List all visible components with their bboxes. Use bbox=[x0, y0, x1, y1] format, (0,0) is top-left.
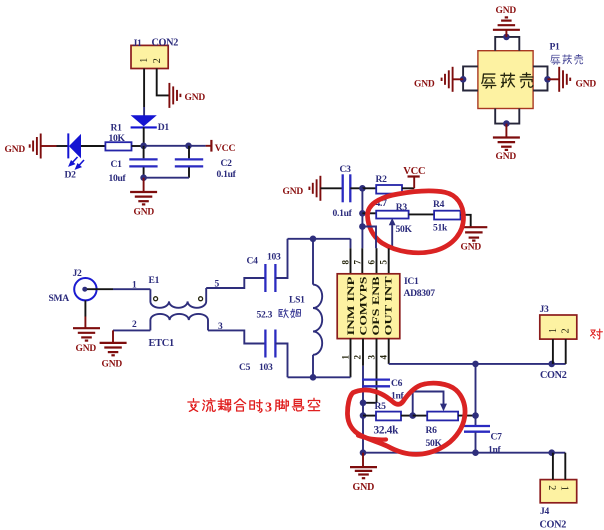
svg-text:1: 1 bbox=[341, 355, 351, 360]
svg-text:LS1: LS1 bbox=[289, 295, 305, 306]
svg-text:C3: C3 bbox=[340, 164, 352, 175]
svg-text:7: 7 bbox=[352, 260, 362, 265]
node R5 left bbox=[360, 412, 367, 419]
wire gnd to C3 bbox=[320, 187, 342, 189]
wire top rail to pin8 bbox=[288, 238, 351, 240]
node at D1/R1/C1 bbox=[140, 143, 147, 150]
connector J3 bbox=[540, 304, 577, 381]
svg-text:INM INP: INM INP bbox=[347, 276, 357, 335]
node C7 bottom bbox=[472, 449, 479, 456]
ground (P1 left, sideways) bbox=[414, 67, 463, 92]
svg-text:GND: GND bbox=[461, 242, 482, 252]
ground (below C1, earth) bbox=[130, 178, 157, 218]
resistor R6 bbox=[413, 412, 476, 449]
wiper of R3 (arrow up to pin5) bbox=[389, 218, 396, 248]
node J4 pin bbox=[548, 449, 555, 456]
svg-text:50K: 50K bbox=[396, 224, 413, 235]
svg-text:J4: J4 bbox=[540, 506, 549, 517]
svg-text:2: 2 bbox=[353, 355, 363, 360]
svg-text:2: 2 bbox=[132, 320, 137, 330]
node R6 right on C7 line bbox=[472, 412, 479, 419]
capacitor C5 bbox=[239, 330, 275, 374]
resistor R2 bbox=[362, 174, 414, 209]
node R5/R6 wiper tap bbox=[409, 412, 416, 419]
wire J1 pin1 down bbox=[143, 69, 145, 108]
wire pin3 jog to pin2 line bbox=[363, 402, 377, 404]
ground (bottom rail, earth) bbox=[350, 453, 377, 493]
svg-text:1: 1 bbox=[132, 280, 137, 290]
node gnd tap bbox=[360, 449, 367, 456]
connector J2 SMA bbox=[49, 268, 97, 304]
wire P1 top pins bbox=[495, 37, 519, 51]
ground (below R4, earth) bbox=[460, 227, 487, 252]
node P1 top bbox=[503, 34, 510, 41]
svg-text:COMVPS: COMVPS bbox=[360, 277, 370, 336]
node pin3/pin2 bbox=[360, 400, 367, 407]
node at C2 top bbox=[185, 143, 192, 150]
svg-text:52.3: 52.3 bbox=[257, 309, 273, 320]
wire COM (pin2) down bbox=[362, 366, 364, 453]
svg-text:2: 2 bbox=[152, 58, 163, 63]
svg-text:GND: GND bbox=[76, 344, 97, 354]
svg-text:R3: R3 bbox=[396, 202, 408, 213]
svg-text:OUT INT: OUT INT bbox=[385, 276, 395, 336]
ground (P1 bottom, earth) bbox=[493, 124, 520, 163]
node LS1 top bbox=[310, 236, 317, 243]
op-amp IC1 AD8307 bbox=[337, 274, 435, 339]
svg-text:GND: GND bbox=[353, 482, 375, 493]
svg-text:0.1uf: 0.1uf bbox=[333, 208, 353, 219]
svg-text:D2: D2 bbox=[65, 170, 77, 181]
connector J4 bbox=[540, 480, 577, 530]
resistor R1 bbox=[105, 123, 131, 151]
wire R1 to node bbox=[132, 145, 144, 147]
resistor R4 bbox=[433, 199, 461, 233]
svg-text:10uf: 10uf bbox=[109, 173, 127, 184]
svg-text:1: 1 bbox=[548, 328, 559, 333]
svg-text:P1: P1 bbox=[550, 42, 561, 53]
wire J4 pins up bbox=[552, 453, 554, 480]
svg-text:GND: GND bbox=[5, 145, 26, 155]
svg-text:J1: J1 bbox=[133, 38, 142, 49]
svg-text:VCC: VCC bbox=[403, 166, 425, 177]
node at C1 bottom bbox=[140, 174, 147, 181]
svg-text:GND: GND bbox=[134, 208, 155, 218]
svg-text:AD8307: AD8307 bbox=[404, 288, 436, 299]
svg-text:J2: J2 bbox=[73, 268, 82, 279]
svg-text:2: 2 bbox=[546, 485, 557, 490]
wiper of R6 (arrow down) bbox=[413, 392, 447, 416]
connector J1 bbox=[131, 37, 178, 68]
svg-text:VCC: VCC bbox=[215, 143, 236, 154]
wire ETC1 to C5 bbox=[208, 330, 265, 343]
resistor R3 bbox=[362, 202, 412, 235]
svg-text:D1: D1 bbox=[158, 122, 170, 133]
node P1 bottom bbox=[503, 120, 510, 127]
power VCC (top left) bbox=[206, 140, 236, 154]
node ENB tap bbox=[359, 223, 366, 230]
wire C3 to node bbox=[350, 187, 362, 189]
shield P1 bbox=[478, 42, 583, 109]
svg-text:C4: C4 bbox=[247, 255, 259, 266]
wire OUT (pin4) to J3 bbox=[389, 363, 566, 365]
node R3 tap bbox=[359, 210, 366, 217]
capacitor C7 bbox=[464, 364, 502, 456]
svg-text:E1: E1 bbox=[149, 275, 160, 286]
svg-text:103: 103 bbox=[259, 362, 273, 373]
pin numbers 8 7 6 5 bbox=[341, 260, 389, 265]
svg-text:1: 1 bbox=[139, 58, 150, 63]
wire SMA shell down bbox=[84, 300, 86, 316]
svg-text:1nf: 1nf bbox=[488, 444, 502, 455]
svg-text:ETC1: ETC1 bbox=[149, 338, 174, 349]
svg-text:32.4k: 32.4k bbox=[374, 424, 400, 436]
ground (P1 right, sideways) bbox=[548, 67, 597, 92]
svg-text:R1: R1 bbox=[111, 123, 123, 134]
wire pin8 up bbox=[350, 239, 352, 248]
pin stubs top bbox=[351, 248, 389, 274]
red note text bbox=[188, 399, 262, 413]
red circle annotation (bottom) bbox=[347, 383, 465, 454]
capacitor C2 bbox=[175, 146, 237, 180]
wire R3 to R4 bbox=[409, 213, 435, 215]
ground (below SMA, earth) bbox=[73, 328, 100, 354]
wire J3 pins down bbox=[552, 339, 554, 364]
svg-text:GND: GND bbox=[414, 80, 435, 90]
wire SMA pin bbox=[87, 288, 113, 290]
capacitor C1 bbox=[109, 146, 158, 184]
svg-text:C1: C1 bbox=[111, 159, 123, 170]
ground (left of C3, sideways) bbox=[283, 176, 321, 201]
ground (P1 top, earth up) bbox=[493, 6, 520, 37]
wire J1 pin2 to gnd bbox=[157, 69, 169, 96]
wire P1 right pins bbox=[533, 66, 547, 90]
svg-text:GND: GND bbox=[283, 187, 304, 197]
svg-text:3: 3 bbox=[366, 355, 376, 360]
node P1 left bbox=[460, 76, 467, 83]
svg-text:R6: R6 bbox=[426, 425, 438, 436]
inductor LS1 bbox=[257, 239, 323, 377]
ground (J1 pin2, sideways bars) bbox=[169, 83, 180, 108]
wire bottom rail to pin1 bbox=[288, 376, 351, 378]
svg-text:2: 2 bbox=[561, 328, 572, 333]
svg-text:GND: GND bbox=[496, 152, 517, 162]
node C3/R2/pin7 bbox=[359, 185, 366, 192]
svg-text:C7: C7 bbox=[491, 431, 503, 442]
wire C5 to bottom rail bbox=[275, 344, 287, 378]
svg-text:1: 1 bbox=[559, 486, 570, 491]
svg-text:R5: R5 bbox=[375, 401, 387, 412]
node OUT/C7 bbox=[472, 361, 479, 368]
svg-text:IC1: IC1 bbox=[404, 276, 419, 287]
svg-text:C5: C5 bbox=[239, 362, 251, 373]
svg-text:J3: J3 bbox=[540, 304, 549, 315]
wire C1/C2 bottoms bbox=[144, 177, 189, 179]
diode D1 bbox=[131, 115, 170, 133]
wire P1 bottom pins bbox=[495, 109, 519, 124]
svg-text:8: 8 bbox=[341, 260, 351, 265]
pin numbers 1 2 3 4 bbox=[341, 355, 389, 360]
wire VPS vertical bbox=[361, 188, 363, 248]
capacitor C3 bbox=[333, 164, 353, 219]
capacitor C6 bbox=[362, 378, 405, 402]
wire D2 to R1 bbox=[81, 145, 105, 147]
svg-text:SMA: SMA bbox=[49, 293, 70, 304]
svg-text:C6: C6 bbox=[391, 378, 403, 389]
wire D1 to node bbox=[143, 127, 145, 145]
wire node to VCC bbox=[189, 145, 206, 147]
wire E1 to C4 bbox=[206, 278, 265, 288]
node OUT/J3 bbox=[548, 361, 555, 368]
ground (ETC1 left, earth) bbox=[100, 343, 127, 370]
power VCC (above R2) bbox=[403, 166, 425, 188]
svg-text:CON2: CON2 bbox=[152, 37, 179, 48]
svg-text:OFS ENB: OFS ENB bbox=[372, 276, 382, 336]
transformer E1 (top winding) bbox=[132, 275, 220, 308]
svg-text:R2: R2 bbox=[376, 174, 388, 185]
wire node to C2 node bbox=[144, 145, 189, 147]
svg-text:3: 3 bbox=[265, 401, 272, 416]
resistor R5 bbox=[363, 401, 413, 437]
svg-text:51k: 51k bbox=[433, 222, 448, 233]
capacitor C4 bbox=[247, 251, 281, 292]
svg-text:GND: GND bbox=[576, 80, 597, 90]
LED D2 bbox=[57, 133, 85, 180]
wire P1 left pins bbox=[463, 66, 478, 90]
svg-text:GND: GND bbox=[496, 6, 517, 16]
wire bottom ground rail bbox=[363, 452, 565, 454]
wire C4 to top rail bbox=[275, 239, 287, 278]
transformer ETC1 (bottom winding) bbox=[132, 314, 223, 349]
red circle annotation (top) bbox=[367, 191, 463, 253]
wire ETC1 left to gnd bbox=[113, 329, 150, 331]
svg-text:GND: GND bbox=[102, 360, 123, 370]
node LS1 bottom bbox=[310, 374, 317, 381]
svg-text:4: 4 bbox=[379, 355, 389, 360]
wire R4 to ground bbox=[461, 215, 471, 227]
svg-text:5: 5 bbox=[379, 260, 389, 265]
svg-text:R4: R4 bbox=[433, 199, 445, 210]
svg-text:103: 103 bbox=[267, 251, 281, 262]
svg-text:6: 6 bbox=[366, 260, 376, 265]
pin stubs bottom bbox=[351, 339, 389, 403]
red note char (right edge) bbox=[591, 329, 603, 339]
svg-text:CON2: CON2 bbox=[540, 370, 567, 381]
node P1 right bbox=[544, 76, 551, 83]
svg-text:0.1uf: 0.1uf bbox=[217, 169, 237, 180]
svg-text:GND: GND bbox=[185, 93, 206, 103]
svg-text:C2: C2 bbox=[221, 158, 233, 169]
svg-text:10K: 10K bbox=[109, 133, 126, 144]
wire ENB jog to pin6 bbox=[362, 227, 376, 249]
svg-text:CON2: CON2 bbox=[540, 519, 567, 530]
